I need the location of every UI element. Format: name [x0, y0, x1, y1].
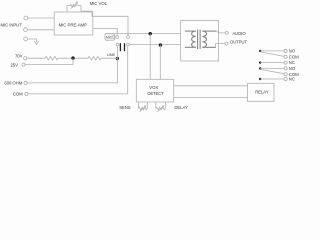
wire switch B2 to transformer primary bottom: [129, 44, 180, 46]
wire: [28, 17, 54, 19]
wire: [28, 29, 55, 31]
svg-text:RELAY: RELAY: [255, 90, 269, 95]
relay arm wire COM 1: [261, 52, 284, 56]
svg-text:NO: NO: [289, 49, 296, 54]
svg-text:DETECT: DETECT: [147, 91, 164, 96]
wire VOX output 2 to relay coil: [174, 97, 248, 99]
wire: [27, 57, 45, 59]
terminal NC 2: [284, 77, 287, 80]
transformer T1: [185, 30, 216, 50]
mic input jack terminal 1: [24, 16, 28, 20]
svg-text:COM: COM: [289, 55, 299, 60]
wire: [260, 67, 284, 69]
potentiometer MIC VOL: [67, 2, 81, 12]
jumper plug MIC: [105, 34, 115, 40]
potentiometer SENS: [138, 102, 147, 112]
capacitor line coupling: [120, 43, 124, 51]
terminal 25V: [22, 63, 25, 66]
header pin B2: [127, 43, 130, 46]
svg-text:NO: NO: [289, 66, 296, 71]
node J1: [149, 32, 152, 35]
relay contact NC 1 node: [259, 61, 261, 63]
terminal NC 1: [284, 61, 287, 64]
wire COM up to pin B2: [28, 46, 128, 94]
wire J2 down to VOX detect: [159, 45, 161, 80]
svg-text:NC: NC: [289, 60, 295, 65]
jumper plug pin: [112, 36, 115, 39]
header pin T2: [127, 36, 130, 39]
wire secondary bottom to output terminal: [216, 44, 225, 48]
svg-text:70V: 70V: [15, 54, 23, 59]
resistor line pad: [88, 56, 101, 60]
svg-text:600 OHM: 600 OHM: [4, 81, 22, 86]
wire 25V to node J0: [25, 58, 73, 64]
wire: [101, 57, 117, 59]
audio output terminal 1: [225, 31, 228, 34]
svg-text:SENS: SENS: [119, 105, 131, 110]
svg-text:COM: COM: [13, 91, 23, 96]
potentiometer DELAY: [156, 102, 166, 112]
svg-text:NC: NC: [289, 77, 295, 82]
header pin T1: [116, 36, 119, 39]
node LINE: [116, 57, 119, 60]
wire secondary top to output terminal: [216, 31, 225, 33]
svg-text:LINE: LINE: [107, 52, 116, 57]
wire 600 ohm to LINE node: [27, 58, 117, 83]
relay block: [248, 83, 274, 101]
wire audio bus to transformer primary top: [105, 33, 181, 35]
wire J1 down to VOX detect: [149, 34, 151, 80]
amplifier block MIC PRE-AMP: [54, 12, 93, 35]
terminal NO 1: [284, 49, 287, 52]
svg-text:VOX: VOX: [149, 85, 158, 90]
node J2: [159, 43, 162, 46]
svg-text:MIC PRE-AMP: MIC PRE-AMP: [59, 22, 88, 27]
VOX detector block: [136, 79, 173, 102]
relay contact NO 2 node: [259, 67, 261, 69]
relay contact NO 1 node: [259, 50, 261, 52]
svg-text:MIC VOL: MIC VOL: [90, 1, 108, 6]
terminal 70V: [24, 57, 27, 60]
terminal COM: [25, 92, 28, 95]
terminal NO 2: [284, 67, 287, 70]
svg-text:25V: 25V: [11, 62, 19, 67]
terminal COM 1: [284, 55, 287, 58]
wire VOX output 1 to relay coil: [174, 85, 248, 87]
relay contact NC 2 node: [259, 78, 261, 80]
mic input jack terminal 3: [24, 37, 28, 41]
resistor 70V pad: [45, 56, 58, 60]
terminal 600 OHM: [24, 81, 27, 84]
wire: [58, 57, 88, 59]
wire: [260, 78, 284, 80]
wire LINE node up to pin B1: [117, 46, 119, 58]
wire: [260, 50, 284, 52]
wire: [260, 62, 284, 64]
wire from MIC VOL wiper to switch pin T2: [81, 6, 128, 36]
transformer T1 enclosure: [181, 21, 219, 62]
audio output terminal 2: [225, 42, 228, 45]
node J0: [71, 56, 74, 59]
relay arm wire COM 2: [261, 70, 284, 74]
mic input jack terminal 2: [24, 28, 28, 32]
wire: [28, 39, 37, 42]
header pin B1: [116, 43, 119, 46]
terminal COM 2: [284, 73, 287, 76]
wire preamp output to switch pin T1: [93, 28, 117, 35]
ground: [34, 41, 38, 44]
svg-text:DELAY: DELAY: [174, 105, 188, 110]
svg-text:MIC INPUT: MIC INPUT: [1, 23, 23, 28]
svg-text:AUDIO: AUDIO: [232, 31, 246, 36]
svg-text:MIC: MIC: [106, 36, 113, 40]
svg-text:OUTPUT: OUTPUT: [230, 40, 247, 45]
